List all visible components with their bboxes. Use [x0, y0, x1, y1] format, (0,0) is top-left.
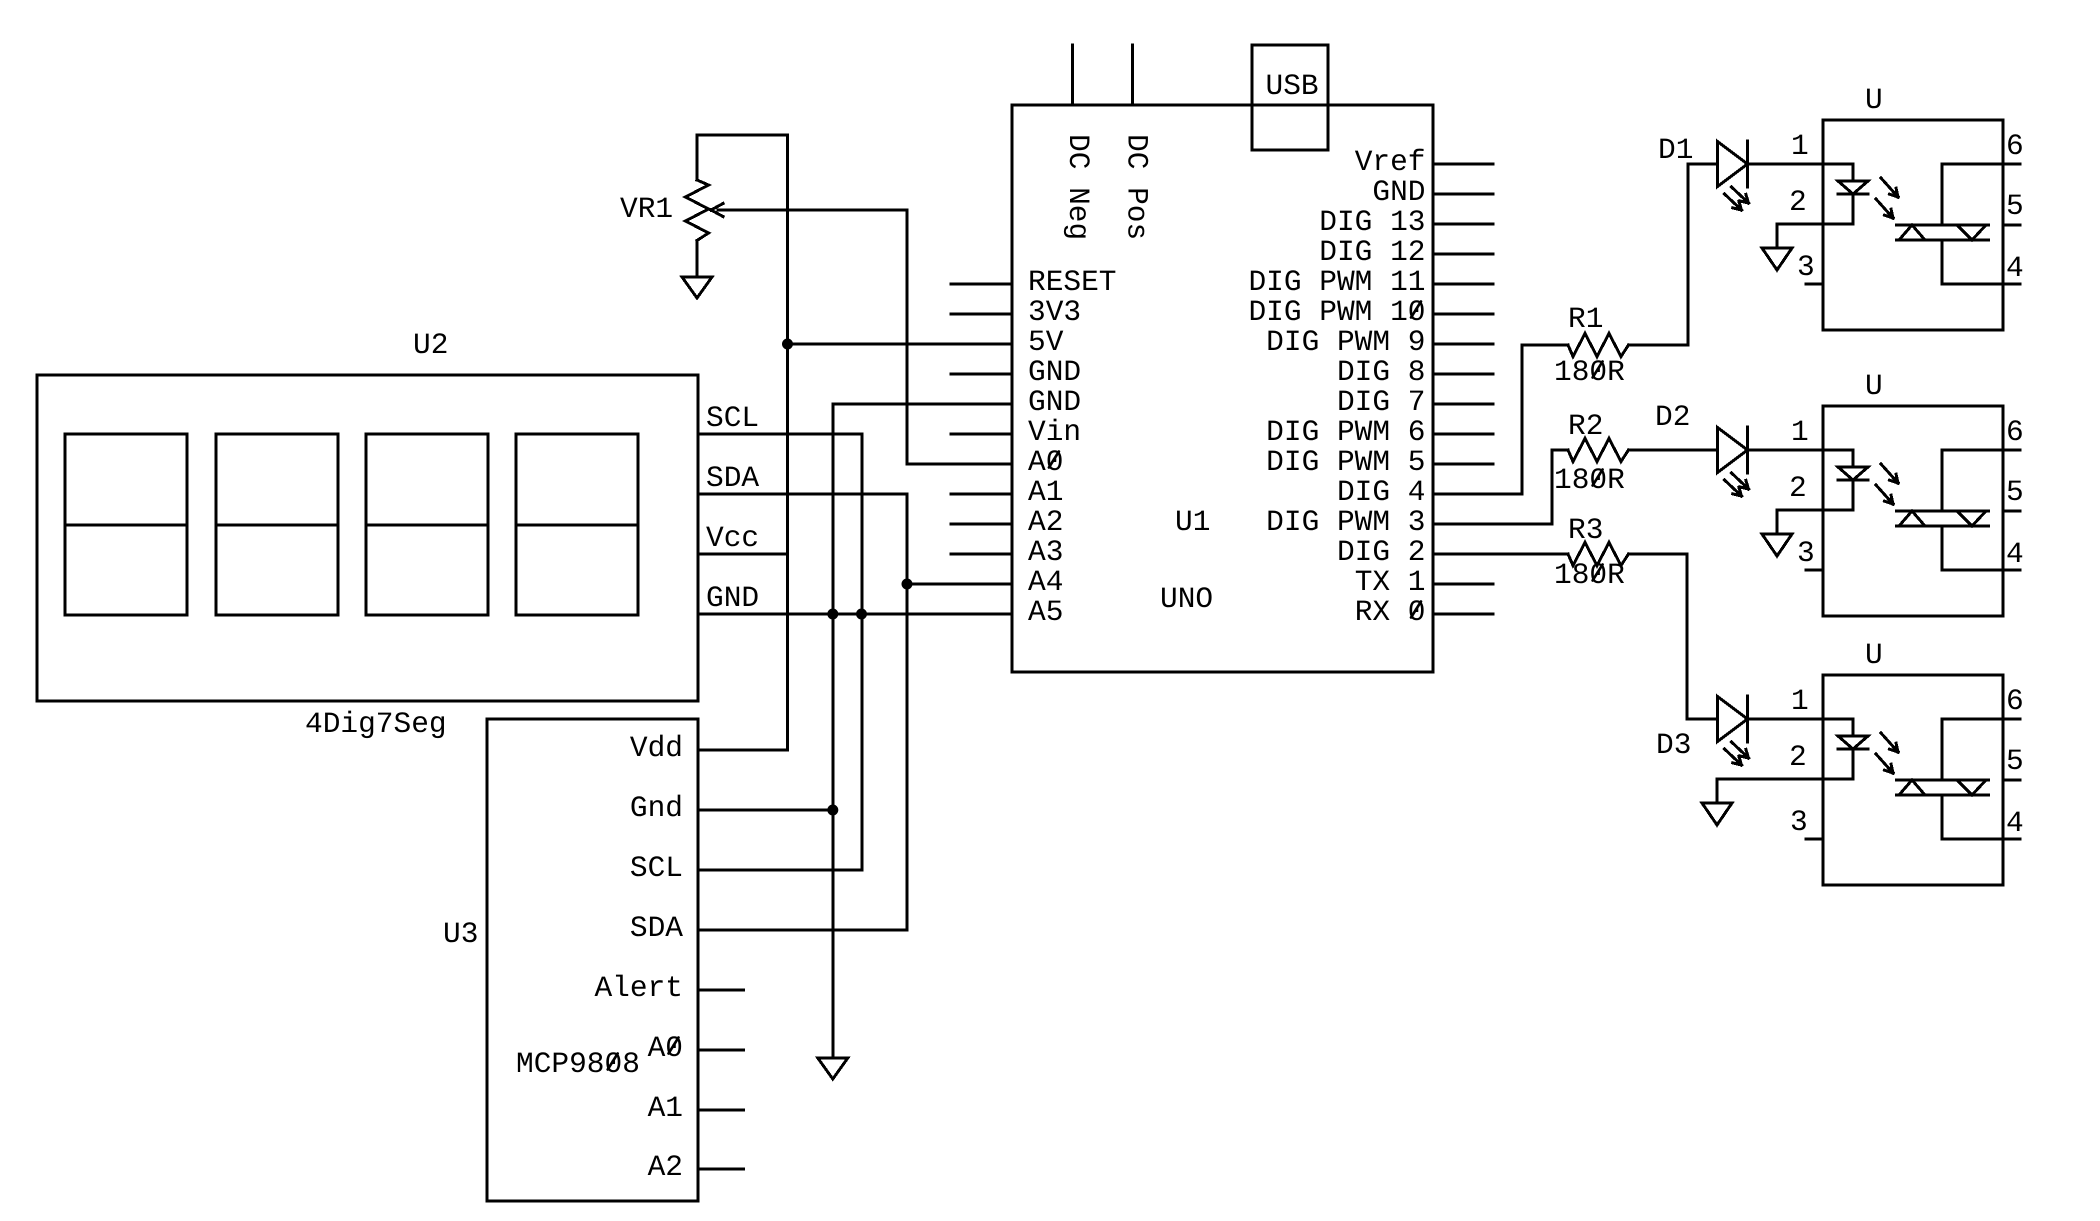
svg-text:USB: USB: [1266, 69, 1319, 103]
svg-text:4: 4: [2006, 806, 2024, 840]
svg-text:6: 6: [2006, 684, 2024, 718]
svg-text:2: 2: [1789, 740, 1807, 774]
svg-text:A3: A3: [1028, 535, 1063, 569]
svg-text:DIG PWM 6: DIG PWM 6: [1266, 415, 1425, 449]
svg-text:D2: D2: [1655, 400, 1690, 434]
svg-text:A1: A1: [1028, 475, 1063, 509]
svg-text:Alert: Alert: [594, 971, 683, 1005]
svg-text:3: 3: [1797, 536, 1815, 570]
svg-text:DC Neg: DC Neg: [1061, 134, 1095, 240]
svg-text:5: 5: [2006, 475, 2024, 509]
svg-text:2: 2: [1789, 185, 1807, 219]
svg-text:DIG 8: DIG 8: [1337, 355, 1426, 389]
svg-text:6: 6: [2006, 129, 2024, 163]
svg-text:180R: 180R: [1554, 463, 1625, 497]
svg-text:U1: U1: [1175, 505, 1210, 539]
svg-text:TX 1: TX 1: [1355, 565, 1426, 599]
svg-text:A0: A0: [648, 1031, 683, 1065]
svg-text:DIG PWM 5: DIG PWM 5: [1266, 445, 1425, 479]
svg-text:SCL: SCL: [706, 401, 759, 435]
svg-text:DIG PWM 11: DIG PWM 11: [1248, 265, 1425, 299]
svg-text:R2: R2: [1568, 409, 1603, 443]
svg-text:RX 0: RX 0: [1355, 595, 1426, 629]
svg-text:4: 4: [2006, 251, 2024, 285]
svg-text:Vcc: Vcc: [706, 521, 759, 555]
svg-text:MCP9808: MCP9808: [516, 1047, 640, 1081]
svg-text:A0: A0: [1028, 445, 1063, 479]
svg-text:GND: GND: [1028, 355, 1081, 389]
svg-text:GND: GND: [706, 581, 759, 615]
svg-text:R3: R3: [1568, 513, 1603, 547]
svg-text:DIG 7: DIG 7: [1337, 385, 1426, 419]
svg-text:UNO: UNO: [1160, 582, 1213, 616]
svg-text:DIG 13: DIG 13: [1319, 205, 1425, 239]
svg-text:6: 6: [2006, 415, 2024, 449]
svg-text:SCL: SCL: [630, 851, 683, 885]
svg-text:D3: D3: [1656, 728, 1691, 762]
svg-text:1: 1: [1791, 415, 1809, 449]
svg-text:RESET: RESET: [1028, 265, 1117, 299]
svg-text:5: 5: [2006, 189, 2024, 223]
svg-text:3: 3: [1790, 805, 1808, 839]
svg-text:U: U: [1865, 638, 1883, 672]
svg-text:DC Pos: DC Pos: [1120, 134, 1154, 240]
svg-text:D1: D1: [1658, 133, 1693, 167]
svg-text:U: U: [1865, 369, 1883, 403]
svg-text:DIG 4: DIG 4: [1337, 475, 1426, 509]
svg-text:1: 1: [1791, 684, 1809, 718]
svg-text:DIG PWM 9: DIG PWM 9: [1266, 325, 1425, 359]
svg-text:A1: A1: [648, 1091, 683, 1125]
svg-text:Gnd: Gnd: [630, 791, 683, 825]
svg-text:A2: A2: [1028, 505, 1063, 539]
svg-text:A4: A4: [1028, 565, 1063, 599]
svg-text:A5: A5: [1028, 595, 1063, 629]
svg-text:5: 5: [2006, 744, 2024, 778]
svg-text:DIG PWM 3: DIG PWM 3: [1266, 505, 1425, 539]
svg-text:R1: R1: [1568, 302, 1603, 336]
svg-text:4: 4: [2006, 537, 2024, 571]
svg-text:A2: A2: [648, 1150, 683, 1184]
svg-text:3: 3: [1797, 250, 1815, 284]
svg-text:U: U: [1865, 83, 1883, 117]
svg-text:SDA: SDA: [706, 461, 759, 495]
svg-text:Vdd: Vdd: [630, 731, 683, 765]
svg-text:5V: 5V: [1028, 325, 1064, 359]
svg-text:DIG PWM 10: DIG PWM 10: [1248, 295, 1425, 329]
svg-text:180R: 180R: [1554, 558, 1625, 592]
svg-text:2: 2: [1789, 471, 1807, 505]
svg-text:GND: GND: [1372, 175, 1425, 209]
svg-text:VR1: VR1: [620, 192, 673, 226]
svg-text:U2: U2: [413, 328, 448, 362]
svg-text:Vref: Vref: [1355, 145, 1426, 179]
svg-text:U3: U3: [443, 917, 478, 951]
svg-text:Vin: Vin: [1028, 415, 1081, 449]
svg-text:DIG 12: DIG 12: [1319, 235, 1425, 269]
svg-text:180R: 180R: [1554, 355, 1625, 389]
svg-text:3V3: 3V3: [1028, 295, 1081, 329]
svg-text:DIG 2: DIG 2: [1337, 535, 1426, 569]
svg-text:GND: GND: [1028, 385, 1081, 419]
svg-text:4Dig7Seg: 4Dig7Seg: [305, 707, 447, 741]
svg-text:SDA: SDA: [630, 911, 683, 945]
svg-text:1: 1: [1791, 129, 1809, 163]
